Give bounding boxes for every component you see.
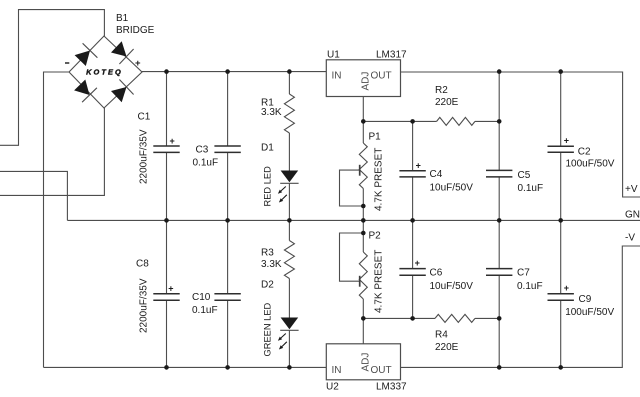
svg-text:IN: IN — [332, 71, 342, 82]
LED D2 (green) — [280, 318, 298, 368]
label R4 value — [435, 342, 459, 353]
label RED LED rotated — [263, 166, 273, 207]
label C6 — [430, 268, 443, 279]
svg-text:0.1uF: 0.1uF — [192, 305, 218, 316]
label - polarity on bridge — [65, 62, 69, 64]
label R3 — [261, 247, 274, 258]
svg-text:+V: +V — [625, 184, 638, 195]
capacitor C6 10uF/50V — [399, 220, 425, 318]
svg-text:C10: C10 — [192, 292, 211, 303]
wire bottom rail from U2 OUT to -V corner — [401, 246, 640, 367]
label -V output — [625, 232, 635, 243]
diode bridge bottom-right (cathode at + node) — [111, 80, 134, 103]
diode bridge bottom-left (anode at - node) — [74, 80, 97, 103]
potentiometer P1 4.7K preset — [340, 121, 368, 220]
svg-text:P2: P2 — [369, 230, 382, 241]
capacitor C5 0.1uF — [486, 72, 512, 221]
svg-text:LM337: LM337 — [376, 382, 407, 393]
wire AC input 1 (top loop from left edge to bridge AC1 node) — [0, 10, 104, 146]
resistor R2 220E — [437, 117, 475, 125]
svg-text:C4: C4 — [430, 169, 443, 180]
label C7 value — [517, 281, 543, 292]
svg-text:0.1uF: 0.1uF — [517, 281, 543, 292]
label R1 value — [261, 107, 282, 118]
wire ADJ node line U2 — [363, 317, 499, 319]
node P1 wiper junction — [361, 204, 366, 209]
node C10 bottom junction — [225, 365, 230, 370]
node C2 gnd junction — [558, 218, 563, 223]
label C2 value — [566, 159, 615, 170]
label C10 value — [192, 305, 218, 316]
svg-text:+: + — [168, 284, 173, 294]
diode bridge top-right (cathode at + node) — [111, 41, 134, 64]
svg-text:2200uF/35V: 2200uF/35V — [138, 278, 149, 333]
svg-text:ADJ: ADJ — [360, 353, 371, 372]
wire C7 node down to bottom rail — [498, 318, 500, 367]
svg-text:C1: C1 — [138, 112, 151, 123]
svg-text:R3: R3 — [261, 247, 274, 258]
label C7 — [517, 268, 530, 279]
label B1 — [116, 13, 129, 24]
label LM317 — [376, 49, 407, 60]
capacitor C3 0.1uF — [214, 72, 240, 221]
node C7 bottom rail junction — [497, 365, 502, 370]
capacitor C7 0.1uF — [486, 220, 512, 318]
svg-text:OUT: OUT — [371, 71, 392, 82]
node C6 bottom junction — [410, 316, 415, 321]
label +V output — [625, 184, 638, 195]
node C3 gnd junction — [225, 218, 230, 223]
label C10 — [192, 292, 211, 303]
label + polarity on bridge — [135, 58, 141, 69]
svg-text:+: + — [564, 283, 569, 293]
wire top rail from U1 OUT to +V corner — [401, 72, 640, 197]
label C4 value — [430, 183, 474, 194]
svg-text:GREEN LED: GREEN LED — [263, 302, 273, 356]
node C3 top junction — [225, 69, 230, 74]
label R1 — [261, 97, 274, 108]
svg-text:-V: -V — [625, 232, 635, 243]
svg-text:U1: U1 — [327, 49, 340, 60]
wire bridge negative output down left side to bottom rail — [44, 72, 70, 367]
node C2 top junction — [558, 69, 563, 74]
svg-text:+: + — [416, 160, 421, 170]
label C8 — [136, 259, 149, 270]
node C4 gnd junction — [410, 218, 415, 223]
label C4 — [430, 169, 443, 180]
wire GND feed from left edge — [0, 171, 67, 220]
svg-text:C2: C2 — [578, 146, 591, 157]
LED D1 (red) — [280, 171, 298, 221]
label BRIDGE — [116, 25, 155, 36]
svg-text:BRIDGE: BRIDGE — [116, 25, 155, 36]
svg-text:220E: 220E — [435, 97, 459, 108]
node C1 top junction — [164, 69, 169, 74]
wire AC input 2 (from left edge to bridge AC2 node) — [0, 108, 104, 195]
svg-text:C7: C7 — [517, 268, 530, 279]
label LM337 — [376, 382, 407, 393]
node D2 bottom junction — [287, 365, 292, 370]
svg-text:+: + — [564, 136, 569, 146]
label R2 value — [435, 97, 459, 108]
wire P2 bottom to U2 ADJ pin — [362, 318, 364, 343]
svg-text:10uF/50V: 10uF/50V — [430, 183, 474, 194]
svg-text:D2: D2 — [261, 280, 274, 291]
node C5 top junction — [497, 69, 502, 74]
bridge rectifier B1 diamond outline — [69, 36, 142, 108]
label GREEN LED rotated — [263, 302, 273, 356]
pin label ADJ of U2 rotated — [360, 353, 371, 372]
logo KOTEQ — [86, 67, 123, 76]
pin label IN of U1 — [332, 71, 342, 82]
op-amp U1 LM317 regulator box — [326, 60, 400, 97]
LED D1 light arrows — [278, 187, 287, 203]
node P2 wiper junction — [361, 231, 366, 236]
capacitor C2 100uF/50V — [548, 72, 574, 221]
svg-text:+: + — [170, 136, 175, 146]
svg-text:C5: C5 — [518, 170, 531, 181]
capacitor C9 100uF/50V — [548, 220, 574, 367]
label D1 — [261, 143, 274, 154]
svg-text:4.7K PRESET: 4.7K PRESET — [373, 148, 384, 211]
label C6 value — [430, 281, 474, 292]
pin label IN of U2 — [332, 365, 342, 376]
resistor R4 220E — [435, 314, 475, 322]
label C2 — [578, 146, 591, 157]
resistor R3 3.3K — [284, 220, 294, 317]
svg-text:C8: C8 — [136, 259, 149, 270]
svg-text:C3: C3 — [196, 145, 209, 156]
wire GND rail — [67, 219, 640, 221]
label P2 value rotated — [373, 250, 384, 313]
node C5 gnd junction — [497, 218, 502, 223]
node P1 gnd junction — [361, 218, 366, 223]
diode bridge top-left (anode at - node) — [75, 43, 98, 66]
label R2 — [435, 85, 448, 96]
node D1 gnd junction — [287, 218, 292, 223]
svg-text:3.3K: 3.3K — [261, 107, 282, 118]
svg-text:+: + — [415, 258, 420, 268]
label C8 value rotated — [138, 278, 149, 333]
node C8 bottom junction — [164, 365, 169, 370]
label P2 — [369, 230, 382, 241]
svg-text:RED LED: RED LED — [263, 166, 273, 207]
svg-text:KOTEQ: KOTEQ — [86, 67, 123, 76]
label GND output — [625, 209, 640, 220]
label C9 value — [565, 307, 614, 318]
node C9 bottom junction — [558, 365, 563, 370]
wire ADJ node line U1 — [363, 120, 499, 122]
svg-text:4.7K PRESET: 4.7K PRESET — [373, 250, 384, 313]
svg-text:100uF/50V: 100uF/50V — [566, 159, 615, 170]
node R2 right junction — [497, 119, 502, 124]
label R4 — [435, 329, 448, 340]
svg-text:100uF/50V: 100uF/50V — [565, 307, 614, 318]
label C1 — [138, 112, 151, 123]
svg-text:LM317: LM317 — [376, 49, 407, 60]
label C9 — [579, 294, 592, 305]
svg-text:OUT: OUT — [371, 365, 392, 376]
svg-text:+: + — [135, 58, 141, 69]
label P1 value rotated — [373, 148, 384, 211]
svg-text:GND: GND — [625, 209, 640, 220]
pin label ADJ of U1 rotated — [360, 72, 371, 91]
svg-text:R4: R4 — [435, 329, 448, 340]
label U1 — [327, 49, 340, 60]
capacitor C4 10uF/50V — [399, 121, 425, 220]
node C4 top junction — [410, 119, 415, 124]
capacitor C1 2200uF/35V — [153, 72, 179, 221]
capacitor C10 0.1uF — [214, 220, 240, 367]
svg-text:C6: C6 — [430, 268, 443, 279]
svg-text:0.1uF: 0.1uF — [193, 158, 219, 169]
node U2 ADJ junction — [361, 316, 366, 321]
LED D2 light arrows — [278, 334, 287, 350]
node U1 ADJ junction — [361, 119, 366, 124]
label C3 value — [193, 158, 219, 169]
node C1 gnd junction — [164, 218, 169, 223]
label C5 — [518, 170, 531, 181]
svg-text:P1: P1 — [369, 131, 382, 142]
svg-text:2200uF/35V: 2200uF/35V — [138, 129, 149, 184]
svg-text:ADJ: ADJ — [360, 72, 371, 91]
op-amp U2 LM337 regulator box — [326, 344, 400, 380]
resistor R1 3.3K — [284, 72, 294, 171]
label P1 — [369, 131, 382, 142]
pin label OUT of U1 — [371, 71, 392, 82]
node R1 top junction — [287, 69, 292, 74]
label U2 — [326, 382, 339, 393]
svg-text:C9: C9 — [579, 294, 592, 305]
node R4 right junction — [497, 316, 502, 321]
svg-text:IN: IN — [332, 365, 342, 376]
label C5 value — [518, 183, 544, 194]
wire top rail from bridge + to U1 IN — [142, 71, 326, 73]
svg-text:B1: B1 — [116, 13, 129, 24]
label C1 value rotated — [138, 129, 149, 184]
label C3 — [196, 145, 209, 156]
svg-text:D1: D1 — [261, 143, 274, 154]
svg-text:U2: U2 — [326, 382, 339, 393]
pin label OUT of U2 — [371, 365, 392, 376]
potentiometer P2 4.7K preset — [340, 220, 368, 318]
svg-text:220E: 220E — [435, 342, 459, 353]
label D2 — [261, 280, 274, 291]
svg-text:0.1uF: 0.1uF — [518, 183, 544, 194]
wire bottom rail (into U2 IN) — [44, 366, 327, 368]
label R3 value — [261, 259, 282, 270]
wire U1 ADJ pin down — [362, 97, 364, 122]
svg-text:R2: R2 — [435, 85, 448, 96]
svg-text:10uF/50V: 10uF/50V — [430, 281, 474, 292]
capacitor C8 2200uF/35V — [153, 220, 179, 367]
svg-text:3.3K: 3.3K — [261, 259, 282, 270]
